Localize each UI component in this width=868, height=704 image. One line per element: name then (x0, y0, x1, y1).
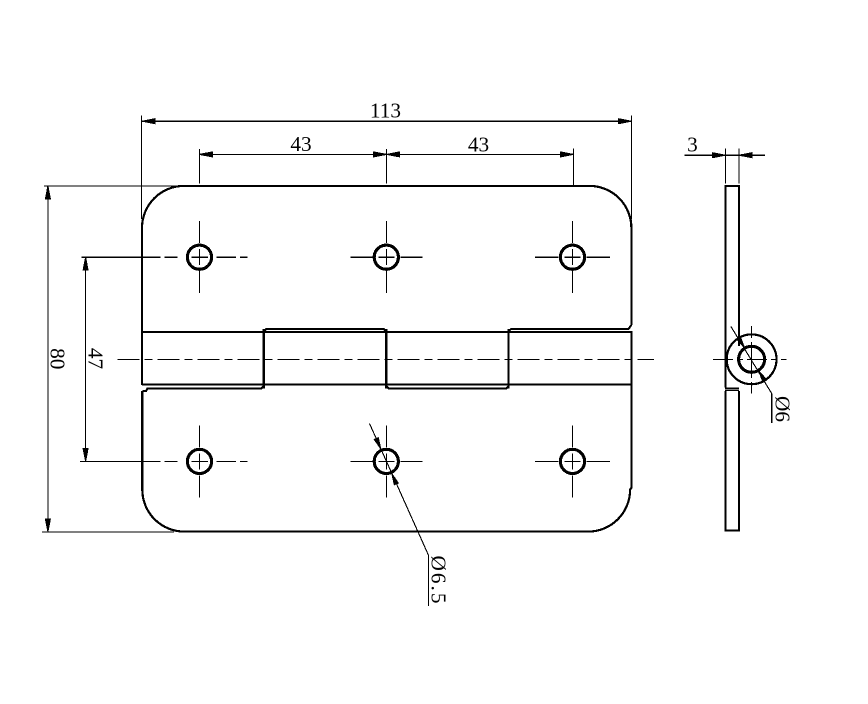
dimension 3 right arrow (outside pointing left) (739, 153, 752, 158)
hole B1 vertical centerline (199, 425, 201, 497)
dimension 43 left dim left arrow (199, 152, 212, 157)
diameter 6.5 leader line through hole B2 (370, 424, 429, 556)
hole B2 bottom-middle circle (374, 449, 398, 473)
svg-text:113: 113 (370, 98, 401, 122)
hole A2 horizontal centerline (350, 256, 422, 258)
front view: bottom leaf upper edge line (142, 384, 632, 386)
dimension 113 left arrow (142, 119, 155, 124)
hole B3 vertical centerline (572, 425, 574, 497)
dimension 3 right extension line (738, 148, 740, 183)
hole A2 vertical centerline (385, 221, 387, 293)
knuckle joint line 2 (385, 329, 387, 389)
dimension 80 line (47, 186, 49, 532)
hole B3 horizontal centerline (535, 460, 610, 462)
dimension 3 line (685, 154, 765, 156)
dimension 47 top arrow (83, 257, 88, 270)
knuckle joint line 1 (263, 329, 265, 389)
dimension 113 line (142, 120, 631, 122)
hole A3 top-right circle (560, 245, 584, 269)
dimension 47 line (85, 257, 87, 461)
diameter 6 lower arrow (759, 371, 767, 382)
side view: vertical centerline (751, 326, 753, 394)
dimension 3 left extension line (724, 148, 726, 183)
hole B1 bottom-left circle (187, 449, 211, 473)
diameter 6 upper arrow (737, 337, 745, 348)
hole A3 horizontal centerline (535, 256, 610, 258)
dimension 113 right extension line (630, 116, 632, 220)
svg-text:Ø6.5: Ø6.5 (426, 555, 450, 605)
hole B2 horizontal centerline (350, 460, 422, 462)
dimension 80 bottom arrow (45, 519, 50, 532)
hole B2 vertical centerline (385, 425, 387, 497)
diameter 6.5 lower arrow (392, 474, 399, 485)
dimension 43 right line (387, 153, 574, 155)
hole B3 bottom-right circle (560, 449, 584, 473)
svg-text:43: 43 (468, 132, 489, 156)
dimension 113 left extension line (140, 116, 142, 220)
front view: bottom leaf outline (142, 331, 631, 532)
hole A2 top-middle circle (374, 245, 398, 269)
svg-text:43: 43 (290, 132, 311, 156)
dimension 80 top extension line (44, 185, 184, 187)
knuckle 3 cylinder bottom silhouette (386, 386, 508, 389)
hole A1 top-left circle (187, 245, 211, 269)
diameter 6.5 upper arrow (374, 438, 381, 449)
dimension 43 right dim right arrow (561, 152, 574, 157)
dimension 80 bottom extension line (42, 531, 174, 533)
dimension 80 top arrow (45, 186, 50, 199)
knuckle 4 cylinder top silhouette (509, 325, 632, 332)
front view: top leaf lower edge line (142, 331, 632, 333)
knuckle 1 cylinder bottom silhouette with left step (142, 386, 263, 391)
diameter 6 leader landing line (771, 394, 773, 423)
side view: lower leaf outline (725, 389, 739, 391)
dimension 43 extension line at left hole column (198, 149, 200, 184)
dimension 43 extension line at middle hole column (386, 149, 388, 184)
hole B1 horizontal centerline merged with 47-dim extension (80, 460, 248, 462)
hole A1 vertical centerline (199, 221, 201, 293)
diameter 6 leader line through pin hole (731, 326, 772, 393)
dimension 43 right dim left arrow (387, 152, 400, 157)
knuckle 2 cylinder top silhouette (264, 329, 387, 332)
hole A1 horizontal centerline merged with 47-dim extension (81, 256, 247, 258)
side view: horizontal centerline (713, 358, 787, 360)
knuckle joint line 3 (508, 329, 510, 389)
svg-text:80: 80 (46, 348, 70, 369)
hole A3 vertical centerline (572, 221, 574, 293)
diameter 6.5 leader landing line (428, 556, 430, 606)
side view: knuckle outer circle (727, 334, 777, 384)
hinge pin axis centerline (front view) (118, 358, 655, 360)
svg-text:47: 47 (83, 348, 107, 370)
dimension 43 extension line at right hole column (573, 149, 575, 186)
dimension 3 left arrow (outside pointing right) (712, 153, 725, 158)
side view: pin hole circle (739, 346, 765, 372)
dimension 43 left line (199, 153, 386, 155)
dimension 47 bottom arrow (83, 448, 88, 461)
svg-text:Ø6: Ø6 (770, 396, 794, 422)
dimension 43 left dim right arrow (374, 152, 387, 157)
svg-text:3: 3 (687, 133, 698, 157)
front view: top leaf outline (142, 186, 631, 385)
dimension 113 right arrow (618, 119, 631, 124)
side view: upper leaf outline (726, 186, 739, 388)
